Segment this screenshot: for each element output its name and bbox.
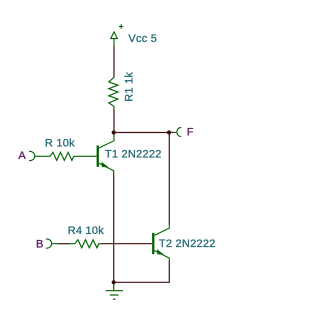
wire T1 emitter to ground junction [113, 174, 115, 283]
terminal A (input connector arc) [29, 151, 35, 160]
svg-text:R4 10k: R4 10k [68, 225, 105, 237]
svg-text:F: F [187, 127, 194, 139]
transistor T2 base bar [152, 233, 154, 254]
resistor R [50, 152, 74, 160]
svg-text:B: B [36, 239, 44, 251]
transistor T2 collector [154, 225, 169, 236]
transistor T1 collector [99, 135, 114, 149]
svg-text:T2 2N2222: T2 2N2222 [159, 238, 216, 250]
ground symbol [106, 284, 123, 299]
transistor T1 emitter [99, 163, 114, 173]
wire T2 collector to junction [168, 133, 170, 225]
wire junction to terminal F [169, 131, 174, 133]
transistor T2 emitter arrow [157, 249, 164, 255]
resistor R1 [109, 77, 118, 108]
wire Vcc to R1 top [113, 46, 115, 78]
resistor R4 [75, 240, 101, 248]
svg-text:Vcc 5: Vcc 5 [128, 33, 157, 45]
transistor T2 emitter [154, 251, 169, 261]
wire R1 bottom to node [113, 109, 115, 133]
wire resistor R4 to T2 base [101, 243, 152, 245]
svg-text:R1 1k: R1 1k [124, 72, 136, 102]
junction dot (R1 / T1 collector / F net) [112, 130, 116, 134]
terminal F (output connector arc) [177, 127, 181, 136]
junction dot (T2 collector branch) [167, 130, 171, 134]
wire top horizontal node to T2 collector column [114, 132, 170, 134]
transistor T1 base bar [97, 145, 99, 166]
resistor R4 left lead [70, 243, 75, 245]
wire terminal B pin [52, 243, 58, 245]
terminal B (input connector arc) [46, 239, 52, 248]
svg-text:T1 2N2222: T1 2N2222 [105, 148, 162, 160]
svg-text:R 10k: R 10k [45, 138, 75, 150]
wire B to resistor R4 [58, 243, 71, 245]
power symbol Vcc (+5V supply arrow) [111, 24, 124, 45]
svg-text:A: A [18, 150, 26, 162]
junction dot (ground node) [112, 280, 116, 284]
wire resistor R to T1 base [74, 155, 97, 157]
transistor T1 emitter arrow [102, 162, 109, 168]
wire terminal A to resistor R [35, 155, 50, 157]
wire T2 emitter down and to ground junction [114, 261, 170, 282]
